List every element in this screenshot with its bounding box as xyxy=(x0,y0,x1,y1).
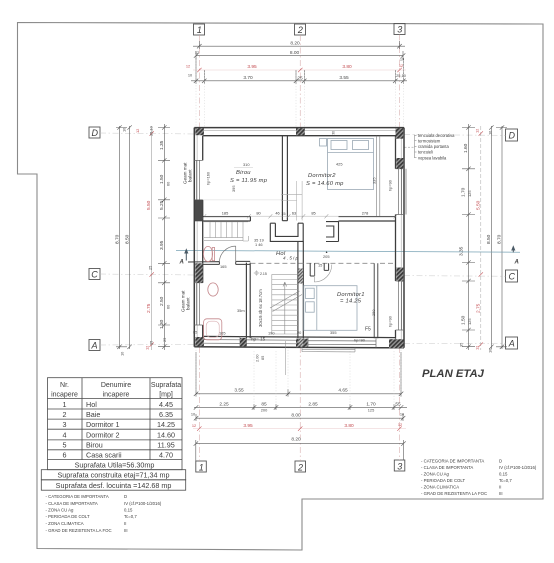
dashed beam line over hol/dormitor1 xyxy=(250,262,395,264)
svg-text:III: III xyxy=(499,491,503,496)
svg-text:85: 85 xyxy=(193,330,197,335)
axis grid line 2 vertical xyxy=(299,35,301,461)
svg-text:II: II xyxy=(499,484,501,489)
svg-text:- CATEGORIA DE IMPORTANTA: - CATEGORIA DE IMPORTANTA xyxy=(46,494,109,499)
faint guide verticals from top dims to wall xyxy=(196,60,403,127)
axis bubble A left xyxy=(89,340,100,351)
faint sill line across birou xyxy=(203,199,282,201)
axis bubble D left xyxy=(89,127,100,138)
svg-text:3.70: 3.70 xyxy=(243,75,253,81)
dormitor1 door arc xyxy=(314,265,332,283)
bottom-right info list xyxy=(421,458,537,496)
svg-text:2: 2 xyxy=(297,25,303,35)
svg-text:4 . 5 i p: 4 . 5 i p xyxy=(283,256,299,261)
svg-text:1.60: 1.60 xyxy=(463,143,469,153)
axis bubble A right xyxy=(506,337,518,349)
svg-text:hp=90: hp=90 xyxy=(388,179,393,191)
faint guide verticals from wall to bottom dims xyxy=(196,347,401,405)
dim line 8.50 right xyxy=(489,125,493,349)
svg-text:4.45: 4.45 xyxy=(159,400,173,409)
svg-text:85: 85 xyxy=(261,401,267,407)
svg-text:6: 6 xyxy=(63,450,67,459)
svg-text:- PERIOADA DE COLT: - PERIOADA DE COLT xyxy=(421,478,465,483)
axis grid line C horizontal xyxy=(100,274,506,276)
top dimension chain group xyxy=(191,41,407,84)
svg-text:3.35: 3.35 xyxy=(459,246,465,256)
svg-text:A: A xyxy=(179,260,184,266)
axis grid line 1 vertical xyxy=(198,35,200,461)
svg-text:hp= 15: hp= 15 xyxy=(251,337,266,342)
right dim texts rotated xyxy=(459,129,503,353)
window left wall hp=160 xyxy=(194,160,202,199)
svg-text:1: 1 xyxy=(199,463,204,473)
interior dim labels row xyxy=(222,211,369,217)
svg-text:2.75: 2.75 xyxy=(475,303,481,313)
svg-text:278: 278 xyxy=(362,211,369,216)
svg-text:3.95: 3.95 xyxy=(243,423,253,429)
svg-text:D: D xyxy=(124,494,127,499)
pier hatch top-left corner xyxy=(195,128,204,135)
G1: axis squares top xyxy=(89,24,518,473)
svg-text:1 46: 1 46 xyxy=(255,242,263,247)
svg-text:25: 25 xyxy=(162,338,167,342)
svg-text:2: 2 xyxy=(297,463,303,473)
section arrow A left xyxy=(179,248,189,265)
svg-text:8.50: 8.50 xyxy=(486,234,492,244)
pier left bottom corner xyxy=(195,337,204,346)
dim line 8.20 bottom xyxy=(194,440,406,461)
pier right wall axis C xyxy=(396,268,403,282)
svg-text:190: 190 xyxy=(268,331,275,336)
svg-text:25,10: 25,10 xyxy=(149,125,154,136)
pier left wall solid under window xyxy=(195,200,202,222)
svg-text:4: 4 xyxy=(63,431,67,440)
svg-text:35: 35 xyxy=(459,343,464,347)
svg-text:A: A xyxy=(508,339,515,349)
svg-text:Hol: Hol xyxy=(86,400,97,409)
svg-text:hp=90: hp=90 xyxy=(388,315,393,327)
svg-text:2.00: 2.00 xyxy=(255,354,260,362)
svg-text:25,10: 25,10 xyxy=(396,73,407,78)
stair right wall xyxy=(298,241,303,338)
svg-text:- GRAD DE REZISTENTA LA FOC: - GRAD DE REZISTENTA LA FOC xyxy=(46,528,112,533)
svg-text:25: 25 xyxy=(297,76,303,82)
svg-text:125: 125 xyxy=(467,319,472,326)
svg-text:85: 85 xyxy=(260,356,265,360)
interior dim line under H1 xyxy=(204,215,396,217)
svg-text:15: 15 xyxy=(281,211,285,216)
svg-text:vopsea lavabila: vopsea lavabila xyxy=(418,155,447,160)
svg-text:3: 3 xyxy=(397,25,402,35)
baie toilet xyxy=(203,246,214,261)
svg-text:- ZONA CLIMATICA: - ZONA CLIMATICA xyxy=(46,521,84,526)
pier right wall upper xyxy=(396,158,403,169)
svg-text:125: 125 xyxy=(368,408,375,413)
svg-text:200: 200 xyxy=(261,408,268,413)
pier bottom wall axis2 xyxy=(296,339,308,348)
svg-text:3: 3 xyxy=(397,462,402,472)
svg-text:C: C xyxy=(91,270,98,280)
window bottom wall F5 xyxy=(308,337,376,347)
svg-text:Tc=0,7: Tc=0,7 xyxy=(124,514,137,519)
svg-text:25: 25 xyxy=(148,266,153,270)
svg-text:185: 185 xyxy=(222,211,229,216)
baie sink xyxy=(208,283,218,296)
svg-text:0,15: 0,15 xyxy=(124,508,133,513)
svg-text:14.25: 14.25 xyxy=(157,420,175,429)
svg-text:5: 5 xyxy=(63,441,67,450)
axis bubble D right xyxy=(506,129,518,141)
svg-text:- PERIOADA DE COLT: - PERIOADA DE COLT xyxy=(46,514,90,519)
dim line 8.00 top xyxy=(194,51,405,58)
svg-text:8.70: 8.70 xyxy=(497,234,503,244)
pier right bottom corner xyxy=(389,339,404,348)
stair cut slashes xyxy=(270,291,302,312)
svg-text:- ZONA CLIMATICA: - ZONA CLIMATICA xyxy=(421,484,459,489)
svg-text:11.95: 11.95 xyxy=(157,441,174,450)
svg-text:12: 12 xyxy=(192,423,196,428)
svg-text:3.55: 3.55 xyxy=(234,388,244,394)
svg-text:- ZONA CU Ag: - ZONA CU Ag xyxy=(421,471,450,476)
dormitor2 door leaf faint xyxy=(281,181,302,221)
svg-text:310: 310 xyxy=(243,162,250,167)
svg-text:Nr.: Nr. xyxy=(60,382,69,389)
svg-text:30: 30 xyxy=(332,131,336,135)
geam mat balant label upper xyxy=(181,162,193,312)
dim line red axes bottom xyxy=(193,426,406,430)
dim line red axes right xyxy=(479,126,483,350)
axis bubble 3 bottom xyxy=(394,460,405,471)
axis bubble 1 top xyxy=(194,24,205,35)
svg-text:Baie: Baie xyxy=(86,410,100,419)
svg-text:1.30: 1.30 xyxy=(159,319,165,329)
svg-text:15: 15 xyxy=(318,263,322,268)
svg-text:II: II xyxy=(124,521,126,526)
svg-text:6.35: 6.35 xyxy=(159,410,173,419)
section arrow A right xyxy=(511,245,519,265)
svg-text:5.50: 5.50 xyxy=(146,200,152,210)
svg-text:- CLASA DE IMPORTANTA: - CLASA DE IMPORTANTA xyxy=(421,465,473,470)
svg-text:D: D xyxy=(92,128,99,138)
axis bubble 3 top xyxy=(394,24,405,35)
svg-text:250: 250 xyxy=(371,309,376,316)
svg-text:205: 205 xyxy=(323,254,330,259)
svg-text:D: D xyxy=(509,131,516,141)
pier hatch top-right corner xyxy=(396,128,404,139)
svg-text:Suprafata construita etaj=71,3: Suprafata construita etaj=71,34 mp xyxy=(57,471,169,480)
dormitor1 door jambs xyxy=(310,263,328,276)
window right wall upper xyxy=(396,169,407,215)
svg-text:Dormitor2: Dormitor2 xyxy=(308,173,336,179)
interior wall H1 left segment xyxy=(203,217,251,221)
svg-text:S = 14.60 mp: S = 14.60 mp xyxy=(306,181,344,187)
svg-text:0,15: 0,15 xyxy=(499,471,508,476)
pier hatch top axis2 xyxy=(296,128,305,135)
svg-text:IV (cf.P100-1/2016): IV (cf.P100-1/2016) xyxy=(124,501,162,506)
axis bubble 2 bottom xyxy=(295,461,306,472)
svg-text:Suprafata: Suprafata xyxy=(151,382,181,389)
TABLE rooms xyxy=(41,378,185,490)
svg-text:hp=160: hp=160 xyxy=(206,171,211,185)
svg-text:Suprafata Utila=56.30mp: Suprafata Utila=56.30mp xyxy=(75,460,155,469)
svg-text:355: 355 xyxy=(330,330,337,335)
svg-text:2.15: 2.15 xyxy=(260,272,267,276)
svg-text:1.50: 1.50 xyxy=(461,315,467,325)
bottom dimension chain group xyxy=(194,352,407,461)
svg-text:12: 12 xyxy=(145,346,150,350)
svg-text:26: 26 xyxy=(397,165,402,169)
exterior wall bottom xyxy=(194,336,404,347)
svg-text:1: 1 xyxy=(63,400,67,409)
svg-text:cramida portanta: cramida portanta xyxy=(418,144,449,149)
stairs main flight xyxy=(270,274,302,334)
svg-text:termosistem: termosistem xyxy=(418,138,441,143)
svg-text:4.70: 4.70 xyxy=(159,450,173,459)
svg-text:12: 12 xyxy=(398,422,402,427)
svg-text:balant: balant xyxy=(186,297,191,310)
bed dormitor2 xyxy=(320,139,374,190)
window right wall lower xyxy=(396,281,405,330)
wall layers legend top right xyxy=(405,133,456,160)
svg-text:hp=90: hp=90 xyxy=(354,338,366,343)
svg-text:A: A xyxy=(90,341,97,351)
exterior wall left xyxy=(194,128,202,347)
interior wall V3 dormitor1 left xyxy=(374,263,378,338)
leader below plan xyxy=(284,341,286,375)
dim line red axes top xyxy=(193,68,406,72)
svg-text:balant: balant xyxy=(188,169,193,182)
svg-text:12: 12 xyxy=(475,129,480,133)
dim line 8.20 top xyxy=(193,41,405,49)
axis bubble 1 bottom xyxy=(196,461,207,472)
svg-text:1: 1 xyxy=(197,25,202,35)
level mark stair xyxy=(254,270,260,276)
closet U jamb centre xyxy=(270,223,303,241)
exterior wall top xyxy=(194,128,404,136)
svg-text:165: 165 xyxy=(220,264,227,269)
svg-text:165: 165 xyxy=(219,331,226,336)
bottom-left info list xyxy=(46,494,162,533)
svg-text:Casa scarii: Casa scarii xyxy=(86,450,122,459)
svg-text:Dormitor 2: Dormitor 2 xyxy=(86,431,120,440)
svg-text:= 14.25: = 14.25 xyxy=(340,299,362,305)
dim line 8.70 left xyxy=(116,125,127,349)
right dimension chain group xyxy=(462,124,507,350)
dim line 3.55 / 4.65 bottom xyxy=(194,352,403,397)
dim line red axes left xyxy=(150,126,154,350)
dim line 8.70 right xyxy=(496,125,507,349)
svg-text:2: 2 xyxy=(63,410,67,419)
svg-text:- CATEGORIA DE IMPORTANTA: - CATEGORIA DE IMPORTANTA xyxy=(421,458,484,463)
dim line 8.50 left xyxy=(127,125,131,349)
pier left wall axis C xyxy=(195,263,202,283)
svg-text:A: A xyxy=(514,260,519,266)
svg-text:12: 12 xyxy=(195,50,199,55)
svg-text:46: 46 xyxy=(275,211,279,216)
stair walk line xyxy=(283,282,287,334)
svg-text:3.80: 3.80 xyxy=(342,64,352,70)
svg-text:3.95: 3.95 xyxy=(247,64,257,70)
svg-text:12: 12 xyxy=(475,346,480,350)
section line A-A xyxy=(176,250,520,252)
baie door arc xyxy=(219,246,235,262)
svg-text:incapere: incapere xyxy=(51,392,78,399)
svg-text:3.80: 3.80 xyxy=(344,423,354,429)
svg-text:30x19.4b 6x 18.7cm: 30x19.4b 6x 18.7cm xyxy=(258,289,263,327)
svg-text:8.00: 8.00 xyxy=(290,50,300,56)
svg-text:63: 63 xyxy=(292,211,296,216)
MAIN PLAN xyxy=(188,60,406,405)
svg-text:4.65: 4.65 xyxy=(338,388,348,394)
svg-text:Denumire: Denumire xyxy=(101,382,131,389)
dim line 3.70 3.55 top xyxy=(191,58,407,84)
svg-text:8.00: 8.00 xyxy=(291,412,301,418)
window bottom wall hp=15 xyxy=(204,336,296,346)
dim line window chain left xyxy=(158,124,170,350)
baie top wall xyxy=(188,261,250,264)
stair right wall hatch pier xyxy=(298,268,303,283)
axis grid line D horizontal xyxy=(100,133,506,135)
svg-text:S = 11.95 mp: S = 11.95 mp xyxy=(230,178,268,184)
svg-text:incapere: incapere xyxy=(103,392,130,399)
svg-text:2.75: 2.75 xyxy=(146,303,152,313)
svg-text:F5: F5 xyxy=(365,327,371,333)
left dim texts rotated xyxy=(114,125,170,356)
svg-text:Birou: Birou xyxy=(86,441,103,450)
svg-text:12: 12 xyxy=(399,63,403,68)
svg-text:2.25: 2.25 xyxy=(219,401,229,407)
axis labels xyxy=(90,25,515,473)
interior wall V2 dormitor2 niche xyxy=(376,136,380,217)
svg-text:- CLASA DE IMPORTANTA: - CLASA DE IMPORTANTA xyxy=(46,501,98,506)
svg-text:55: 55 xyxy=(395,401,401,407)
door jamb C right of axis2 xyxy=(326,222,339,242)
exterior wall right xyxy=(396,128,405,348)
axis grid line A horizontal xyxy=(100,343,506,345)
svg-text:Dormitor1: Dormitor1 xyxy=(337,292,365,298)
svg-text:III: III xyxy=(124,528,128,533)
svg-text:PLAN ETAJ: PLAN ETAJ xyxy=(422,368,485,380)
svg-text:- ZONA CU Ag: - ZONA CU Ag xyxy=(46,508,75,513)
svg-text:2.50: 2.50 xyxy=(159,296,165,306)
interior wall H1 right segment xyxy=(339,217,396,221)
svg-text:3: 3 xyxy=(63,420,67,429)
left dimension chain group xyxy=(116,124,170,350)
svg-text:8.50: 8.50 xyxy=(124,234,130,244)
svg-text:25: 25 xyxy=(149,341,154,345)
svg-text:395: 395 xyxy=(231,186,236,193)
svg-text:IV (cf.P100-1/2016): IV (cf.P100-1/2016) xyxy=(499,465,537,470)
svg-text:Dormitor 1: Dormitor 1 xyxy=(86,420,120,429)
svg-text:Suprafata desf. locuinta =142.: Suprafata desf. locuinta =142.68 mp xyxy=(56,481,172,490)
svg-text:3.95: 3.95 xyxy=(159,240,165,250)
pier bottom wall x229 xyxy=(240,338,247,346)
svg-text:8.20: 8.20 xyxy=(290,41,300,47)
svg-text:C: C xyxy=(509,272,516,282)
axis bubble 2 top xyxy=(295,24,306,35)
baie tub xyxy=(204,319,222,340)
svg-text:D: D xyxy=(499,458,502,463)
svg-text:425: 425 xyxy=(336,162,343,167)
bed dormitor1 xyxy=(304,286,357,331)
svg-text:Tc=0,7: Tc=0,7 xyxy=(499,478,512,483)
svg-text:12: 12 xyxy=(186,64,190,69)
svg-text:335: 335 xyxy=(372,178,377,185)
stairs upper flight xyxy=(204,222,248,241)
dim line window chain right xyxy=(462,124,475,350)
svg-text:[mp]: [mp] xyxy=(159,392,173,399)
axis grid line 3 vertical xyxy=(399,35,401,461)
svg-text:1.50: 1.50 xyxy=(159,174,165,184)
svg-text:- GRAD DE REZISTENTA LA FOC: - GRAD DE REZISTENTA LA FOC xyxy=(421,491,487,496)
svg-text:1.35: 1.35 xyxy=(159,140,165,150)
svg-text:8.20: 8.20 xyxy=(291,437,301,443)
svg-text:125: 125 xyxy=(467,191,472,198)
axis bubble C left xyxy=(89,269,100,280)
svg-text:1.70: 1.70 xyxy=(366,401,376,407)
svg-text:3.55: 3.55 xyxy=(339,75,349,81)
axis bubble C right xyxy=(506,270,518,282)
svg-text:5.50: 5.50 xyxy=(475,200,481,210)
terrace edge below bottom wall xyxy=(302,347,355,352)
dim line 8.00 bottom xyxy=(194,414,405,421)
baie / stair wall xyxy=(246,263,250,339)
svg-text:2.85: 2.85 xyxy=(308,401,318,407)
svg-text:5.25: 5.25 xyxy=(159,200,165,210)
svg-text:8.70: 8.70 xyxy=(114,234,120,244)
svg-text:1.70: 1.70 xyxy=(461,187,467,197)
svg-text:85: 85 xyxy=(311,211,315,216)
interior wall V1 birou/dormitor2 xyxy=(282,136,287,221)
window left wall baie xyxy=(194,283,202,325)
svg-text:Birou: Birou xyxy=(236,170,251,176)
svg-text:12: 12 xyxy=(135,129,140,133)
svg-text:35m: 35m xyxy=(237,308,245,313)
svg-text:tencuieli: tencuieli xyxy=(418,150,433,155)
svg-text:14.60: 14.60 xyxy=(157,431,175,440)
dim line 2.25/85/2.85/1.70/55 bottom xyxy=(194,404,407,410)
